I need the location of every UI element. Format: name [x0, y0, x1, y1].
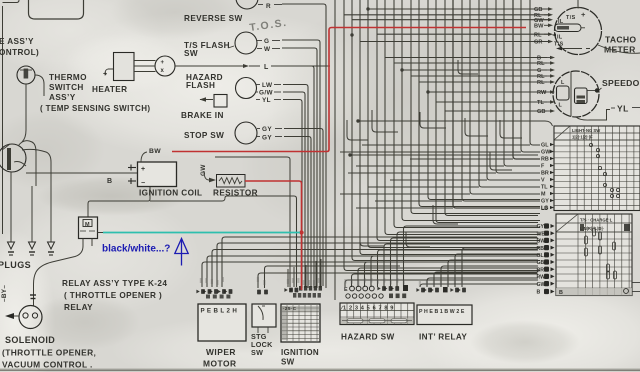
- wire label GB table2: [544, 259, 549, 264]
- reverse sw circle: [236, 0, 258, 9]
- svg-text:E: E: [344, 287, 348, 293]
- wire intrelay-stub3: [434, 272, 538, 287]
- coil bottom wire: [88, 187, 150, 217]
- wire ign-stub5: [315, 261, 317, 287]
- wire label WB table2: [544, 231, 549, 236]
- svg-text:GY: GY: [541, 199, 549, 205]
- wire jog5: [458, 60, 478, 74]
- svg-text:WIPER: WIPER: [206, 347, 236, 357]
- wire ign-stub2: [293, 267, 295, 287]
- wire label GY table2: [544, 223, 549, 228]
- svg-text:L: L: [559, 103, 563, 109]
- wire ign-stub3: [305, 265, 307, 287]
- svg-text:GY: GY: [262, 126, 272, 133]
- wire bundle-v16: [462, 0, 540, 201]
- plug 2: [29, 242, 36, 249]
- wire mid-h7: [390, 179, 487, 181]
- wire pack-5: [283, 85, 308, 289]
- wire jog8: [406, 232, 430, 247]
- wire bundle-v17: [470, 0, 540, 194]
- wire jog2: [347, 120, 368, 140]
- wire label RW table2: [544, 274, 549, 279]
- wire bundle-v1: [334, 0, 336, 300]
- wiper motor box: [198, 304, 246, 341]
- svg-text:HAZARD SW: HAZARD SW: [341, 333, 395, 342]
- tachometer circle: [555, 8, 602, 55]
- svg-text:LB: LB: [541, 206, 548, 212]
- svg-text:RL: RL: [537, 61, 545, 67]
- relay wire left-down: [34, 246, 84, 306]
- wire hazard-stub7: [384, 244, 538, 287]
- brake-in arrow: [200, 99, 213, 101]
- svg-text:x: x: [161, 68, 165, 74]
- svg-text:1|2|·1|2|·|F: 1|2|·1|2|·|F: [572, 135, 593, 140]
- svg-text:ASS’Y: ASS’Y: [49, 93, 76, 102]
- svg-text:+: +: [161, 60, 165, 66]
- wire mid-h2: [358, 120, 545, 122]
- wire label BR table2: [544, 267, 549, 272]
- wire tacho-feed4: [377, 33, 548, 35]
- wire intrelay-stub1: [420, 284, 538, 287]
- svg-text:REVERSE SW: REVERSE SW: [184, 14, 243, 23]
- wire stg-stub1: [258, 273, 537, 288]
- wire speedo-feed4: [411, 75, 547, 77]
- svg-text:+: +: [103, 71, 108, 78]
- wire label GW table2: [544, 281, 549, 286]
- wire mid-h5: [340, 193, 470, 195]
- plug 3: [48, 242, 55, 249]
- svg-text:GW: GW: [537, 282, 546, 288]
- svg-text:RELAY ASS’Y TYPE K-24: RELAY ASS’Y TYPE K-24: [62, 279, 167, 288]
- wire tacho-feed3: [352, 19, 548, 21]
- junction dot g: [426, 90, 429, 93]
- heater plus terminal: [105, 69, 113, 75]
- wire wiper-stub5: [222, 237, 537, 287]
- wire mid-h11: [340, 151, 521, 153]
- wire mid-h10: [410, 158, 513, 160]
- svg-text:M: M: [541, 192, 546, 198]
- wire ign-stub1: [287, 269, 289, 287]
- svg-text:TACHO: TACHO: [605, 35, 636, 45]
- coil ground hook: [14, 162, 26, 167]
- svg-text:ONTROL): ONTROL): [0, 48, 39, 57]
- wire bundle-v8: [394, 0, 540, 228]
- wire pack-1: [282, 4, 326, 288]
- thermo wire down: [22, 84, 26, 142]
- wire into table1 corner: [480, 121, 553, 126]
- wire jog6: [490, 152, 512, 170]
- svg-text:FLASH: FLASH: [186, 81, 215, 90]
- plug 1: [8, 242, 15, 249]
- wire bundle-v2: [344, 0, 540, 271]
- svg-text:( TEMP SENSING SWITCH): ( TEMP SENSING SWITCH): [40, 104, 150, 113]
- svg-text:YL: YL: [262, 97, 271, 104]
- ignition sw box: [281, 304, 320, 342]
- wire pack-extra1: [225, 196, 297, 287]
- wire speedo-feed3: [402, 69, 547, 71]
- svg-text:GY: GY: [537, 224, 545, 230]
- svg-text:T/S: T/S: [554, 42, 564, 48]
- svg-text:P E B L 2 H: P E B L 2 H: [201, 308, 238, 315]
- wire pack-4: [312, 66, 331, 288]
- wire speedo-feed8: [445, 110, 547, 112]
- svg-text:SW: SW: [281, 358, 295, 367]
- svg-text:BW: BW: [534, 24, 544, 30]
- YL exit wire: [576, 110, 610, 121]
- wire jog4: [433, 205, 458, 224]
- wire mid-h4: [375, 200, 462, 202]
- red junction dot: [299, 230, 303, 234]
- svg-text:IGNITION: IGNITION: [281, 348, 319, 357]
- svg-text:STOP SW: STOP SW: [184, 131, 224, 140]
- svg-text:SPEEDO: SPEEDO: [602, 78, 640, 88]
- hazard sw box: [340, 303, 414, 325]
- wire hazard-stub5: [371, 256, 538, 287]
- wire bundle-v4: [360, 0, 540, 255]
- svg-text:INT’ RELAY: INT’ RELAY: [419, 333, 467, 342]
- svg-text:TL: TL: [537, 100, 544, 106]
- svg-text:T/S · CHARGE·L: T/S · CHARGE·L: [580, 218, 613, 223]
- wire wiper-stub3: [212, 250, 537, 288]
- svg-text:RB: RB: [541, 157, 549, 163]
- wire label GL table2: [544, 252, 549, 257]
- resistor box: [217, 175, 246, 188]
- t/s flash circle: [235, 32, 257, 54]
- B wire: [26, 172, 137, 174]
- heater box: [114, 53, 135, 81]
- L wire: [175, 65, 243, 67]
- wire bundle-v14: [445, 0, 538, 216]
- ignition connector terminals: [284, 288, 287, 292]
- svg-text:GL: GL: [537, 253, 545, 259]
- svg-text:GY: GY: [262, 135, 272, 142]
- svg-text:(THROTTLE OPENER‚: (THROTTLE OPENER‚: [2, 348, 96, 358]
- wire mid-h3: [356, 207, 453, 209]
- svg-text:GW: GW: [541, 150, 551, 156]
- wire wiper-stub2: [207, 256, 537, 287]
- svg-text:VACUUM CONTROL .: VACUUM CONTROL .: [2, 360, 95, 370]
- wire bundle-v23: [521, 0, 540, 152]
- wiper connector terminals: [196, 290, 199, 294]
- wire wiper-stub1: [202, 262, 537, 287]
- junction dot b: [350, 33, 353, 36]
- wire hazard-stub6: [378, 250, 539, 287]
- wire bundle-v9: [402, 0, 540, 221]
- tacho bottom wire: [598, 45, 640, 53]
- wire ign-stub4: [310, 263, 312, 287]
- svg-text:G: G: [264, 38, 269, 45]
- svg-text:B: B: [537, 290, 541, 296]
- svg-text:−: −: [141, 180, 146, 187]
- junction dot c: [348, 153, 351, 156]
- table2 right exit wires: [632, 282, 640, 284]
- wire stg-stub2: [265, 266, 401, 288]
- wire bundle-v19: [487, 0, 540, 180]
- svg-text:RW: RW: [537, 90, 547, 96]
- plug wires: [10, 186, 12, 242]
- svg-text:GL: GL: [541, 143, 549, 149]
- blue arrow: [175, 239, 188, 254]
- wire bundle-v24: [530, 0, 540, 145]
- wire pack-6: [283, 92, 305, 288]
- speedo internals: [557, 86, 570, 100]
- svg-text:black/white...?: black/white...?: [102, 244, 170, 255]
- stg lock pins: [257, 327, 259, 333]
- svg-text:BR: BR: [541, 171, 549, 177]
- wire jog1: [372, 110, 398, 132]
- wire hazard-stub9: [397, 232, 538, 287]
- wire mid-h12: [362, 144, 530, 146]
- speedometer circle: [553, 71, 599, 117]
- wire pack-3: [282, 48, 317, 288]
- wire pack-extra2: [215, 157, 290, 287]
- resistor arrow: [204, 171, 209, 180]
- svg-text:G/W: G/W: [259, 90, 274, 97]
- svg-text:PLUGS: PLUGS: [0, 260, 31, 270]
- wire bundle-v6: [377, 0, 540, 241]
- wire pack-2: [282, 40, 320, 288]
- wire speedo-feed2: [394, 62, 547, 64]
- svg-text:RW: RW: [537, 275, 546, 281]
- svg-text:–BY–: –BY–: [1, 285, 8, 302]
- svg-text:SW: SW: [251, 348, 263, 357]
- svg-text:RL: RL: [534, 32, 542, 38]
- wire bundle-v10: [411, 0, 540, 214]
- wire bundle-v21: [504, 0, 540, 166]
- svg-text:GR: GR: [534, 40, 543, 46]
- wire speedo-feed1: [385, 57, 547, 59]
- wire intrelay-stub5: [448, 260, 538, 287]
- svg-text:+: +: [581, 10, 586, 19]
- svg-text:∕1 2 3 4 5 6 7 8 9: ∕1 2 3 4 5 6 7 8 9: [340, 306, 395, 312]
- stg connector terminals: [257, 290, 261, 295]
- wire hazard-stub10: [404, 226, 539, 287]
- hazard flash circle: [236, 78, 257, 99]
- wire jog3: [420, 112, 446, 128]
- svg-text:RB: RB: [537, 246, 545, 252]
- wire bundle-v12: [428, 0, 540, 200]
- cyan wire: [103, 232, 300, 234]
- svg-text:R: R: [266, 3, 271, 10]
- svg-text:+: +: [141, 166, 146, 173]
- int relay box: [417, 305, 472, 325]
- wire ign-stub6: [320, 259, 322, 287]
- wire mid-h1: [350, 154, 538, 156]
- wire intrelay-stub6: [455, 254, 538, 287]
- wire label B table2: [544, 289, 549, 294]
- wire mid-h9: [356, 165, 504, 167]
- wire mid-h8: [348, 172, 496, 174]
- svg-text:BRAKE IN: BRAKE IN: [181, 111, 224, 120]
- wire hazard-stub8: [391, 238, 539, 287]
- distributor circle: [0, 144, 26, 172]
- svg-text:( THROTTLE OPENER ): ( THROTTLE OPENER ): [64, 291, 162, 300]
- svg-text:GW: GW: [200, 164, 207, 176]
- svg-text:B: B: [107, 178, 112, 185]
- svg-text:SWITCH: SWITCH: [49, 83, 84, 92]
- thermo wire hook: [35, 75, 44, 96]
- table2 (int relay chart): [556, 214, 632, 296]
- wire pack-7: [283, 100, 302, 289]
- coil BW hook: [141, 152, 147, 162]
- svg-text:E ASS’Y: E ASS’Y: [0, 37, 34, 46]
- svg-text:GB: GB: [537, 260, 545, 266]
- wire pack-8: [284, 129, 323, 287]
- stop sw circle: [235, 122, 257, 144]
- svg-text:SW: SW: [184, 49, 198, 58]
- svg-text:W: W: [264, 46, 271, 53]
- svg-text:YL: YL: [617, 104, 629, 114]
- relay box: [79, 217, 98, 239]
- L wire cont: [271, 65, 330, 67]
- wire bundle-v7: [385, 0, 540, 235]
- svg-text:BW: BW: [537, 239, 546, 245]
- svg-text:GB: GB: [537, 109, 546, 115]
- wire bundle-v15: [453, 0, 540, 208]
- solenoid arrow: [8, 315, 19, 317]
- svg-text:V: V: [541, 178, 545, 184]
- wire bundle-v20: [496, 0, 540, 173]
- svg-text:L: L: [264, 64, 269, 71]
- wire pack-9: [284, 137, 311, 287]
- svg-text:B: B: [559, 290, 563, 296]
- wire speedo-feed6: [428, 91, 547, 93]
- solenoid wire up: [30, 294, 36, 296]
- wire intrelay-stub7: [462, 248, 538, 287]
- wire bundle-v3: [352, 0, 540, 261]
- junction dot d: [356, 119, 359, 122]
- wire mid-h6: [368, 186, 479, 188]
- svg-text:BR: BR: [537, 267, 545, 273]
- junction dot f: [400, 68, 403, 71]
- wire speedo-feed7: [436, 101, 547, 103]
- svg-text:BW: BW: [149, 148, 161, 155]
- svg-text:MOTOR: MOTOR: [203, 359, 237, 369]
- top rounded box: [29, 0, 84, 19]
- wire bundle-v11: [419, 0, 540, 207]
- ignition coil box: [138, 162, 177, 187]
- svg-text:TL: TL: [541, 185, 548, 191]
- wire label BW table2: [544, 238, 549, 243]
- svg-text:IL: IL: [557, 35, 563, 41]
- wire tacho-feed1: [368, 8, 548, 10]
- wire jog7: [360, 230, 384, 246]
- solenoid circle: [19, 306, 42, 329]
- thermo switch circle: [17, 66, 35, 84]
- wire bundle-v18: [479, 0, 540, 187]
- wire hazard-stub4: [365, 262, 539, 287]
- heater fan motor: [155, 56, 175, 76]
- red wire BW top: [172, 28, 526, 152]
- coil terminals: [128, 167, 136, 169]
- svg-text:LW: LW: [262, 82, 273, 89]
- wire bundle-v5: [368, 0, 540, 248]
- heater-fan wires: [134, 60, 156, 62]
- wire bundle-v13: [436, 0, 538, 223]
- wire speedo-feed5: [419, 81, 547, 83]
- stg lock box: [252, 304, 276, 327]
- svg-text:L: L: [561, 80, 565, 86]
- svg-text:SOLENOID: SOLENOID: [5, 335, 55, 345]
- table1 (lighting sw): [554, 126, 640, 211]
- wire bundle-v22: [513, 0, 540, 159]
- svg-text:WB: WB: [537, 231, 546, 237]
- svg-text:HEATER: HEATER: [92, 85, 127, 94]
- wire intrelay-stub4: [441, 266, 538, 287]
- wire wiper-stub4: [217, 243, 537, 287]
- svg-text:T/S: T/S: [566, 15, 576, 21]
- svg-text:IGNITION COIL: IGNITION COIL: [139, 189, 202, 198]
- relay pins: [82, 239, 84, 247]
- svg-text:IL: IL: [558, 19, 564, 25]
- wire tacho-feed2: [344, 14, 548, 16]
- wire intrelay-stub2: [427, 278, 538, 287]
- wire tacho-feed5: [360, 41, 548, 43]
- int relay connector terminals: [416, 288, 419, 292]
- relay wire right: [98, 232, 104, 234]
- wire jog10: [500, 120, 522, 138]
- top-left box corner: [3, 0, 20, 3]
- svg-text:LIGHT·NG SW: LIGHT·NG SW: [572, 128, 600, 133]
- red wire resistor run: [245, 181, 302, 290]
- distributor cap wires: [18, 141, 36, 186]
- svg-text:THERMO: THERMO: [49, 73, 87, 82]
- left border wire: [2, 6, 4, 234]
- svg-text:M: M: [85, 222, 90, 228]
- brake-in box: [214, 95, 227, 108]
- wire jog9: [465, 118, 488, 136]
- svg-text:RELAY: RELAY: [64, 303, 93, 312]
- wire hazard-stub1: [345, 280, 538, 287]
- wire hazard-stub2: [352, 274, 539, 287]
- svg-text:RL: RL: [537, 80, 545, 86]
- junction dot a: [366, 7, 369, 10]
- svg-text:·25·C: ·25·C: [283, 306, 297, 311]
- wire label RB table2: [544, 245, 549, 250]
- wire hazard-stub3: [358, 268, 538, 287]
- connector code smudges: [200, 278, 202, 283]
- svg-text:P H E B 1 B W 2 E: P H E B 1 B W 2 E: [419, 309, 465, 315]
